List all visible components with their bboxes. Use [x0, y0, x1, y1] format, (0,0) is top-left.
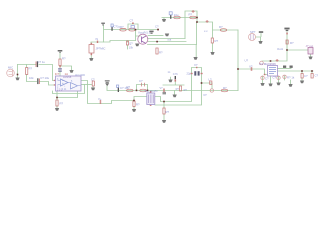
svg-text:J? out: J? out — [306, 44, 314, 48]
svg-text:Sig_Out/N: Sig_Out/N — [145, 89, 158, 93]
svg-text:IC?: IC? — [55, 72, 60, 76]
svg-text:Out1: Out1 — [277, 47, 284, 51]
svg-text:IN: IN — [96, 38, 99, 41]
svg-text:LM358: LM358 — [63, 75, 72, 79]
svg-text:SP?: SP? — [250, 30, 256, 34]
svg-text:L?: L? — [209, 78, 213, 82]
svg-text:10u: 10u — [174, 13, 179, 17]
svg-text:R?: R? — [136, 103, 140, 107]
svg-text:Vout/N1.5: Vout/N1.5 — [138, 31, 151, 35]
svg-text:U?: U? — [245, 59, 249, 63]
svg-text:C?: C? — [130, 19, 134, 23]
svg-text:Q?: Q? — [129, 42, 133, 46]
svg-text:C? 1u: C? 1u — [38, 60, 46, 64]
svg-text:V?: V? — [249, 65, 253, 69]
svg-text:Vcc GND: Vcc GND — [75, 74, 85, 77]
svg-text:C? 10u: C? 10u — [40, 76, 49, 80]
svg-text:10k: 10k — [129, 46, 134, 50]
svg-text:R?: R? — [159, 51, 163, 55]
svg-text:C?: C? — [304, 74, 308, 78]
svg-text:R?: R? — [166, 110, 170, 114]
svg-text:JP?MIC: JP?MIC — [96, 47, 106, 51]
svg-text:C?: C? — [155, 25, 159, 29]
svg-text:R?: R? — [189, 13, 193, 17]
svg-text:C?n: C?n — [173, 72, 179, 76]
svg-text:R?: R? — [290, 41, 294, 45]
svg-text:10k: 10k — [29, 76, 34, 80]
svg-text:C?: C? — [139, 79, 143, 83]
svg-text:R? 1k: R? 1k — [287, 76, 295, 80]
svg-text:C?: C? — [273, 76, 277, 80]
svg-text:X?: X? — [194, 63, 198, 67]
svg-text:22p: 22p — [187, 72, 192, 76]
svg-text:R?: R? — [215, 39, 219, 43]
svg-text:out: out — [168, 38, 172, 42]
svg-text:R?: R? — [62, 57, 66, 61]
svg-text:x.x: x.x — [204, 29, 208, 33]
svg-text:4 11: 4 11 — [62, 89, 67, 91]
svg-text:2 3 1: 2 3 1 — [57, 89, 63, 92]
svg-text:MIC: MIC — [8, 66, 13, 70]
svg-text:IC2 MAX2606: IC2 MAX2606 — [259, 62, 276, 66]
svg-text:R?: R? — [120, 25, 124, 29]
svg-text:C?: C? — [91, 78, 95, 82]
svg-text:R?: R? — [60, 102, 64, 106]
svg-text:R?: R? — [223, 86, 227, 90]
svg-text:V+: V+ — [98, 97, 102, 101]
svg-text:C?: C? — [265, 77, 269, 81]
svg-text:C?: C? — [315, 74, 319, 78]
svg-text:R?: R? — [29, 67, 33, 71]
svg-text:R?: R? — [127, 85, 131, 89]
svg-text:R?: R? — [219, 25, 223, 29]
